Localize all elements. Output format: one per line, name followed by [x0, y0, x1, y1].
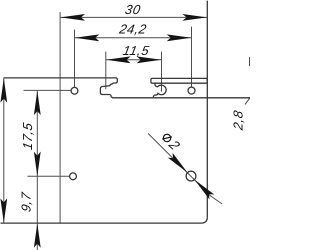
- wire dim line 30: [60, 16, 207, 18]
- hole top-left: [71, 87, 78, 94]
- part left hook profile: [100, 83, 113, 98]
- arrow d2 lower: [192, 177, 214, 199]
- arrow left overall top: [0, 78, 7, 103]
- wire leader tail d2: [210, 196, 222, 204]
- wire extension line x=161: [161, 52, 163, 92]
- wire tick 2,8: [245, 97, 251, 104]
- wire dim line 11,5: [106, 59, 162, 61]
- part right hook profile: [153, 83, 166, 98]
- part right edge: [206, 1, 208, 218]
- label diameter 2: [159, 130, 183, 154]
- arrow 11,5 left: [106, 56, 131, 63]
- wire top edge of part: [4, 78, 118, 83]
- svg-text:9,7: 9,7: [19, 191, 34, 213]
- wire bottom edge of part: [1, 222, 203, 224]
- wire left overall dim line: [3, 78, 5, 223]
- wire extension line x=59.6: [59, 12, 61, 223]
- svg-text:2: 2: [165, 137, 183, 152]
- wire dim line 17,5 / 9,7: [36, 90, 38, 250]
- part top bar: [151, 78, 207, 83]
- cropped mark right edge: [249, 57, 250, 66]
- svg-text:11,5: 11,5: [122, 43, 151, 58]
- arrow 30 left: [61, 14, 86, 21]
- arrow 30 right: [183, 14, 208, 21]
- arrow 9,7 bottom: [34, 223, 41, 248]
- arrow left overall bottom: [0, 198, 7, 223]
- wire long horizontal line y=97.2: [112, 97, 250, 99]
- hole lower-left: [70, 173, 77, 180]
- wire dim line 24,2: [75, 37, 192, 39]
- wire extension line x=74: [74, 30, 76, 88]
- hole top-right: [188, 87, 195, 94]
- wire extension line y=175.7: [28, 175, 70, 177]
- hole d2: [186, 171, 196, 181]
- wire extension line x=191: [191, 27, 193, 88]
- wire extension line x=105.3: [105, 52, 107, 90]
- part bottom right rounded corner: [202, 218, 207, 223]
- wire leader line d2: [148, 133, 211, 196]
- svg-text:24,2: 24,2: [117, 22, 148, 37]
- svg-text:2,8: 2,8: [231, 109, 246, 132]
- arrow 11,5 right: [137, 56, 162, 63]
- arrow d2 upper: [168, 153, 190, 175]
- svg-text:30: 30: [124, 2, 142, 17]
- arrow 17,5 top: [34, 91, 41, 116]
- arrow 17,5 bottom / 9,7 top: [34, 152, 41, 177]
- arrow 24,2 left: [75, 34, 100, 41]
- svg-text:17,5: 17,5: [20, 121, 35, 151]
- arrow 24,2 right: [167, 34, 192, 41]
- wire extension line y=89.8: [24, 89, 72, 91]
